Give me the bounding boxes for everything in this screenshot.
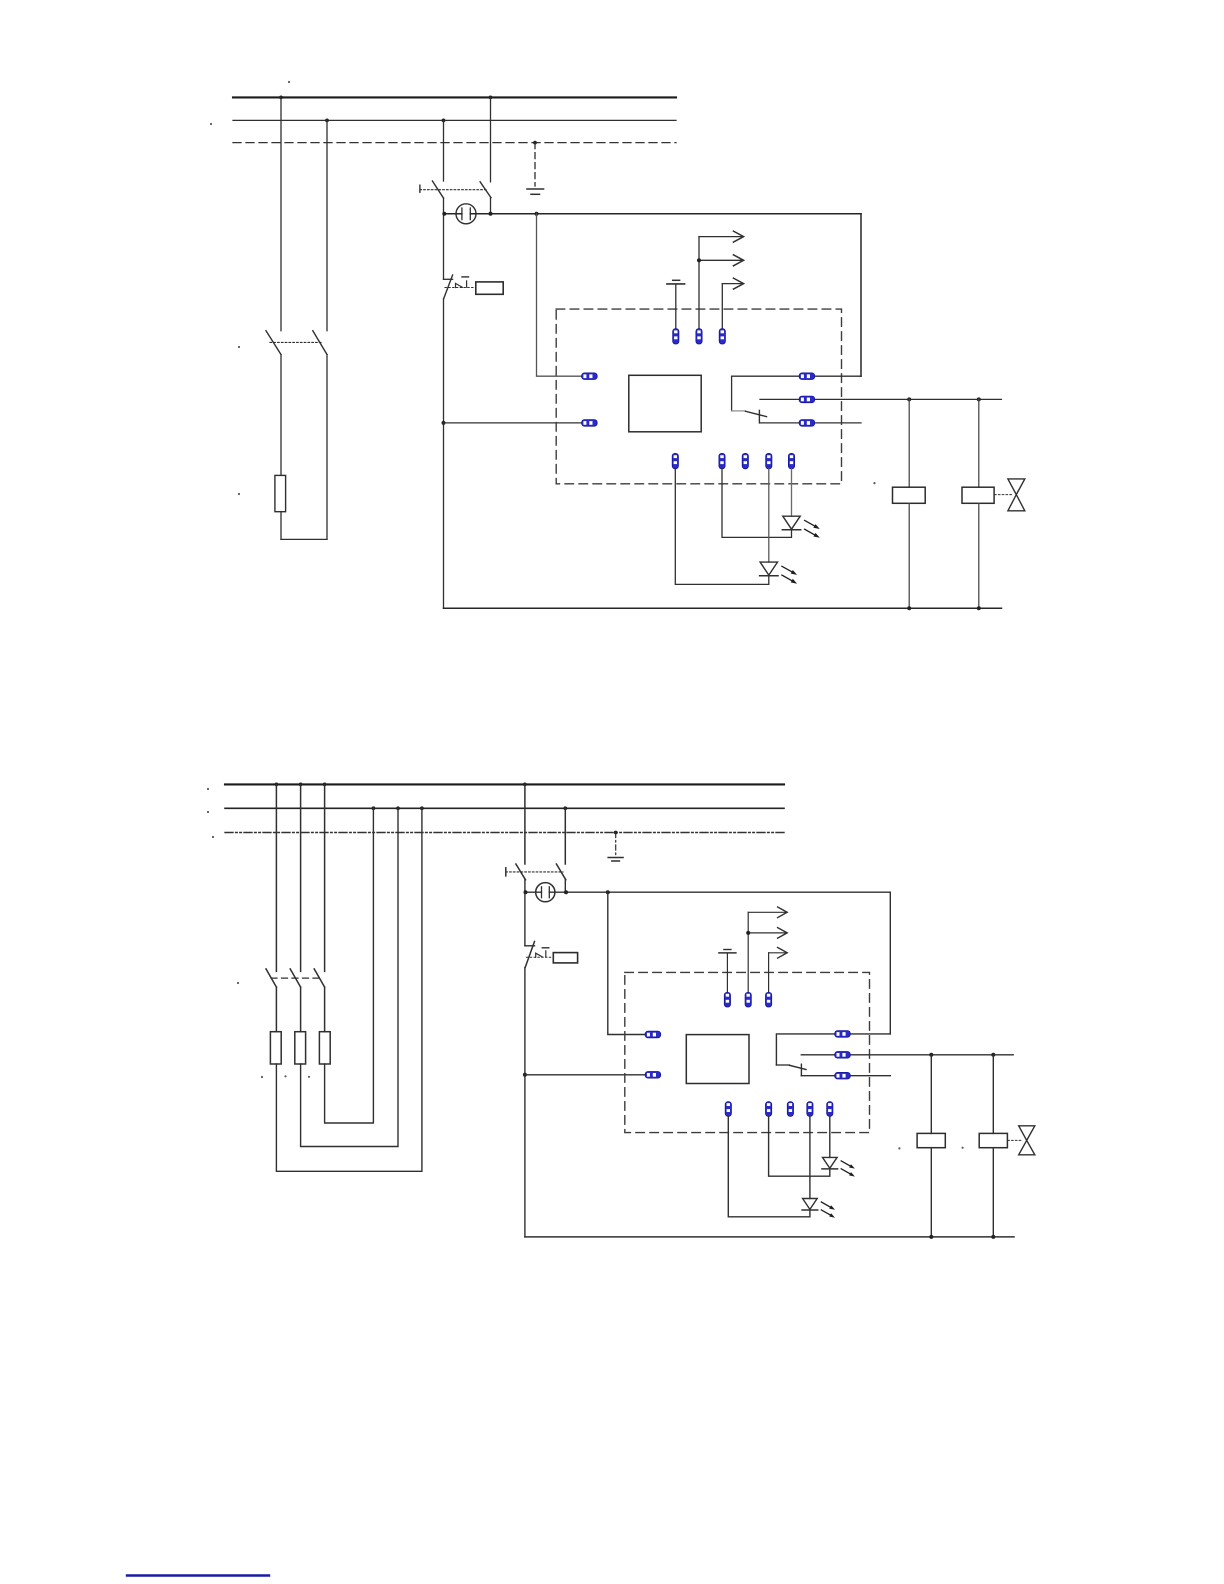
wire: coil K4 lower branch xyxy=(992,1148,994,1237)
dashed controller board outline (top diagram) xyxy=(556,309,841,484)
connector J3 (terminal) xyxy=(719,329,725,344)
wire: load bottom loop xyxy=(281,538,327,540)
relay coil K3 xyxy=(917,1133,945,1147)
connector J14 (terminal) xyxy=(724,992,730,1007)
wire: main control wire W1 xyxy=(444,213,861,215)
LED D4 indicator xyxy=(802,1199,818,1211)
wire: output arrow 1 xyxy=(699,231,744,329)
connector J8 (on W4) xyxy=(799,420,815,427)
solenoid valve Y2 xyxy=(1008,1126,1035,1155)
wire: output arrow 2 (bottom) xyxy=(746,928,787,939)
breaker QF2 actuator tick xyxy=(419,185,421,192)
node: junctions on W1 xyxy=(442,212,538,216)
wire: pole 3 to resistor R4 xyxy=(324,987,326,1032)
ground PE4 above connector J14 xyxy=(719,950,736,994)
node: junctions on W5 xyxy=(907,606,981,610)
ground PE1 beside breaker QF2 xyxy=(527,143,544,195)
wire: J26 to LED D3 anode xyxy=(829,1116,831,1157)
relay contact SW1 inside board xyxy=(732,376,767,423)
wire: D3 cathode return to J23 xyxy=(769,1116,830,1176)
connector J11 (bottom terminal 3) xyxy=(742,453,748,468)
wire: W3 to relay coils (bottom) xyxy=(801,1054,1013,1056)
wire: middle return loop phase 2 xyxy=(301,808,398,1146)
LED D1 emission arrows xyxy=(805,520,820,537)
connector J19 (on W2 bottom) xyxy=(835,1031,851,1038)
relay contact SW2 inside board xyxy=(776,1034,806,1076)
connector J18 (input B terminal) xyxy=(645,1072,661,1079)
breaker QF3 dashed tie bar xyxy=(271,977,319,979)
wire: W2 contact common (bottom) xyxy=(778,1033,891,1035)
breaker QF3 pole 3 blade xyxy=(314,969,324,987)
wire: L1 drop to QF1 pole A xyxy=(280,97,282,330)
wire: L2 drop to QF4 pole 2 xyxy=(564,808,566,864)
wire: coil K3 lower branch xyxy=(930,1148,932,1237)
node: junctions on W5 (bottom diagram) xyxy=(929,1235,995,1239)
connector J4 (input A terminal) xyxy=(582,373,598,380)
wire: J12 to LED D2 anode xyxy=(768,469,770,562)
resistor R1 (load element) xyxy=(275,475,286,511)
wire: W4 contact throw stub xyxy=(760,422,861,424)
connector J23 (bottom terminal 2) xyxy=(766,1102,772,1117)
node: junctions on W3 (bottom) xyxy=(929,1053,995,1057)
connector J7 (on W3) xyxy=(799,396,815,403)
wire: pole 2 down to main wire xyxy=(490,198,492,214)
wire: bus L1 (bottom diagram) xyxy=(225,783,784,785)
node: junction at controller input B xyxy=(442,421,446,425)
breaker QF1 pole A blade xyxy=(266,331,281,355)
wire: coil K3 upper branch xyxy=(930,1055,932,1134)
thermal overload FR1 trip contact xyxy=(444,275,476,299)
wire: bottom return rail W5 (bottom diagram) xyxy=(525,1236,1014,1238)
wire: coil K1 upper branch xyxy=(908,399,910,487)
wire: FR2 down to bottom rail xyxy=(524,967,526,1237)
node: junctions on W3 xyxy=(907,397,981,401)
wire: to controller input B xyxy=(444,422,583,424)
breaker QF4 actuator tick xyxy=(505,868,507,876)
breaker QF4 pole 1 blade xyxy=(516,864,526,880)
wire: below QF4 pole 2 xyxy=(564,880,566,892)
wire: output arrow 3 xyxy=(722,278,743,329)
connector J2 (terminal) xyxy=(696,329,702,344)
wire: pole 1 down to thermal contact xyxy=(443,198,445,279)
plug symbol M2 (circle with pins) xyxy=(536,883,555,902)
wire: outer return loop phase 1 xyxy=(276,808,422,1171)
connector J10 (bottom terminal 2) xyxy=(719,453,725,468)
thermal overload FR2 trip contact xyxy=(525,942,553,968)
node: junction at controller input B (bottom) xyxy=(523,1073,527,1077)
wire: D4 cathode return to J22 xyxy=(728,1116,810,1217)
footer link underline xyxy=(127,1574,269,1576)
wire: coil K1 lower branch xyxy=(908,503,910,608)
breaker QF1 pole B blade xyxy=(313,331,327,355)
thermal relay FR1 heater box xyxy=(476,282,503,294)
wire: inner return loop phase 3 xyxy=(325,808,374,1123)
wire: bus L2 (top diagram) xyxy=(233,119,676,121)
wire: output arrow 2 xyxy=(697,255,744,266)
wire: bus L1 (top diagram) xyxy=(233,96,676,98)
plug symbol M1 (circle with pins) xyxy=(456,204,476,224)
connector J5 (input B terminal) xyxy=(582,420,598,427)
breaker QF3 pole 1 blade xyxy=(266,969,276,987)
wire: output arrow 1 (bottom) xyxy=(748,907,787,993)
wire: pole B down xyxy=(326,355,328,540)
solenoid valve Y1 xyxy=(995,479,1025,511)
relay coil K2 xyxy=(962,487,994,503)
wire: L2 drop to QF2 pole 1 xyxy=(443,120,445,181)
wire: bottom return rail W5 xyxy=(444,607,1002,609)
node: junctions on W1 (bottom) xyxy=(524,890,610,894)
MCU U2 block xyxy=(686,1035,749,1084)
wire: coil K4 upper branch xyxy=(992,1055,994,1134)
wire: pole 2 to resistor R3 xyxy=(300,987,302,1032)
connector J13 (bottom terminal 5) xyxy=(788,453,794,468)
breaker QF4 dotted tie bar xyxy=(506,871,563,873)
resistor R3 phase 2 xyxy=(295,1032,306,1064)
wire: D2 cathode return to J9 xyxy=(675,469,769,585)
MCU U1 block xyxy=(629,375,701,432)
wire: right riser from W1 xyxy=(860,214,862,376)
wire: below QF4 pole 1 xyxy=(524,880,526,946)
node: bus tap junctions (bottom diagram) xyxy=(275,783,618,835)
wire: dashed PE bus L3 (top diagram) xyxy=(233,142,676,144)
ground PE3 beside breaker QF4 xyxy=(608,833,623,862)
dashed controller board outline (bottom diagram) xyxy=(625,972,870,1132)
connector J12 (bottom terminal 4) xyxy=(766,453,772,468)
wire: J13 to LED D1 anode xyxy=(791,469,793,516)
connector J15 (terminal) xyxy=(745,992,751,1007)
breaker QF2 pole 1 blade xyxy=(432,181,443,198)
connector J6 (on W2) xyxy=(799,373,815,380)
wire: bus L2 (bottom diagram) xyxy=(225,807,784,809)
wire: W3 to relay coils xyxy=(760,398,1001,400)
breaker QF3 pole 2 blade xyxy=(290,969,300,987)
wire: right riser from W1 (bottom) xyxy=(889,892,891,1034)
relay coil K1 xyxy=(893,487,926,503)
connector J25 (bottom terminal 4) xyxy=(807,1102,813,1117)
wire: FR1 down to bottom rail xyxy=(443,299,445,609)
relay coil K4 xyxy=(979,1133,1007,1147)
wire: L1 drop pole 2 xyxy=(300,784,302,971)
connector J16 (terminal) xyxy=(766,992,772,1007)
wire: L1 drop pole 1 xyxy=(275,784,277,971)
connector J22 (bottom terminal 1) xyxy=(725,1102,731,1117)
wire: J25 to LED D4 anode xyxy=(809,1116,811,1198)
wire: pole 1 to resistor R2 xyxy=(275,987,277,1032)
LED D2 indicator xyxy=(760,562,778,576)
wire: L1 drop to QF4 pole 1 xyxy=(524,784,526,864)
breaker QF4 pole 2 blade xyxy=(556,864,565,880)
connector J26 (bottom terminal 5) xyxy=(827,1102,833,1117)
wire: pole A down to resistor xyxy=(280,355,282,476)
wire: coil K2 lower branch xyxy=(978,503,980,608)
connector J9 (bottom terminal 1) xyxy=(672,453,678,468)
wire: to controller input B (bottom) xyxy=(525,1074,646,1076)
node: bus tap junctions (top diagram) xyxy=(279,96,537,145)
LED D3 emission arrows xyxy=(841,1161,855,1177)
connector J20 (on W3 bottom) xyxy=(835,1052,851,1059)
wire: output arrow 3 (bottom) xyxy=(769,948,788,994)
wire: riser to controller input A (bottom) xyxy=(608,892,646,1034)
connector J21 (on W4 bottom) xyxy=(835,1072,851,1079)
breaker QF1 dotted tie bar xyxy=(270,341,322,343)
wire: W4 contact throw stub (bottom) xyxy=(801,1075,890,1077)
wire: coil K2 upper branch xyxy=(978,399,980,487)
connector J24 (bottom terminal 3) xyxy=(787,1102,793,1117)
scan speck dots xyxy=(207,81,964,1150)
connector J17 (input A terminal) xyxy=(645,1031,661,1038)
wire: D1 cathode return to J10 xyxy=(722,469,792,538)
wire: W2 contact common xyxy=(732,375,861,377)
wire: dash-dot PEN bus L3 (bottom diagram) xyxy=(225,832,784,834)
wire: L2 drop to QF1 pole B xyxy=(326,120,328,330)
LED D2 emission arrows xyxy=(782,566,797,583)
connector J1 (terminal) xyxy=(673,329,679,344)
wire: main control wire W1 (bottom) xyxy=(526,891,891,893)
breaker QF2 dotted tie bar xyxy=(420,189,487,191)
LED D1 indicator xyxy=(782,516,800,530)
ground PE2 above connector J1 xyxy=(667,280,685,328)
breaker QF2 pole 2 blade xyxy=(480,182,491,198)
wire: L1 drop to QF2 pole 2 xyxy=(490,97,492,181)
LED D4 emission arrows xyxy=(821,1202,835,1218)
wire: L1 drop pole 3 xyxy=(324,784,326,971)
wire: riser to controller input A xyxy=(537,214,583,376)
thermal relay FR2 heater box xyxy=(553,953,577,963)
LED D3 indicator xyxy=(822,1157,838,1169)
resistor R2 phase 1 xyxy=(270,1032,281,1064)
wire: resistor bottom down xyxy=(280,512,282,540)
resistor R4 phase 3 xyxy=(319,1032,330,1064)
